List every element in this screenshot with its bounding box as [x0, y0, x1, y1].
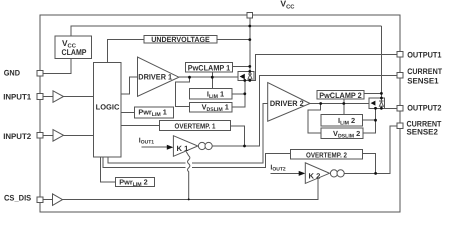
buffer INPUT1 — [53, 91, 64, 103]
arrowhead IOUT1 — [167, 145, 174, 150]
svg-text:PwCLAMP 2: PwCLAMP 2 — [319, 91, 362, 100]
wire undervoltage right to Vcc rail — [217, 39, 250, 41]
box LOGIC — [94, 63, 121, 157]
amplifier K1 — [173, 136, 197, 157]
box UNDERVOLTAGE — [144, 36, 217, 44]
wire PwCLAMP2 tap through to ILIM2 — [343, 99, 345, 115]
wire OUTPUT2 net — [385, 107, 398, 109]
wire GND to Vcc clamp — [43, 58, 71, 73]
svg-text:K 2: K 2 — [309, 171, 321, 180]
svg-text:DRIVER 1: DRIVER 1 — [138, 72, 172, 81]
svg-text:PwCLAMP 1: PwCLAMP 1 — [188, 63, 231, 72]
wire LOGIC to OVERTEMP2 — [103, 157, 185, 168]
op-amp DRIVER1 — [138, 57, 179, 96]
wire OVERTEMP2 right tap — [363, 153, 376, 173]
box PwCLAMP1 — [185, 63, 232, 72]
svg-text:SENSE1: SENSE1 — [407, 76, 439, 85]
svg-text:LOGIC: LOGIC — [96, 103, 120, 112]
pin CURRENT SENSE2 — [397, 123, 403, 129]
pin INPUT1 — [37, 94, 43, 100]
pin GND — [37, 71, 43, 77]
svg-text:CURRENT: CURRENT — [407, 67, 442, 76]
wire K1 output to CURRENT SENSE1 — [212, 75, 397, 146]
svg-text:UNDERVOLTAGE: UNDERVOLTAGE — [151, 35, 210, 44]
svg-text:INPUT1: INPUT1 — [3, 92, 32, 101]
svg-text:DRIVER 2: DRIVER 2 — [270, 99, 304, 108]
box Vcc CLAMP — [55, 36, 91, 58]
wire ILIM2 right stub — [363, 119, 376, 121]
transistor MOSFET1 frame — [238, 71, 254, 80]
wire MOSFET2 source sense tap — [363, 108, 376, 133]
box VDSLIM2 — [321, 128, 363, 139]
wire CS_DIS to buffer — [43, 199, 53, 201]
pin Vcc — [247, 12, 253, 18]
transistor MOSFET1 arrow — [240, 74, 245, 80]
wire OVERTEMP1 right tap — [231, 126, 245, 146]
wire IOUT2 arrow line — [270, 172, 299, 174]
svg-text:CS_DIS: CS_DIS — [4, 194, 32, 203]
wire LOGIC to DRIVER2 — [108, 157, 186, 163]
diode body D2 — [380, 98, 382, 108]
transistor MOSFET2 arrow — [371, 101, 376, 106]
wire LOGIC to PwrLIM1 — [121, 112, 134, 114]
wire INPUT1 to buffer — [43, 96, 53, 98]
box ILIM2 — [321, 115, 363, 126]
wire VDSLIM2 left loop — [308, 104, 321, 134]
wire MOSFET1 source sense tap — [232, 80, 245, 107]
wire ILIM1 right stub — [232, 93, 245, 95]
svg-text:CLAMP: CLAMP — [62, 47, 87, 57]
transistor MOSFET2 frame — [369, 98, 385, 108]
wire buffer2 to LOGIC — [64, 134, 94, 136]
wire buffer1 to LOGIC — [64, 96, 94, 98]
wire PwCLAMP2 to drain rail — [364, 92, 381, 94]
pin CURRENT SENSE1 — [397, 73, 403, 79]
box OVERTEMP1 — [159, 121, 230, 131]
current mirror circles K2 — [330, 170, 337, 177]
wire LOGIC to OVERTEMP1 — [121, 125, 159, 127]
pin OUTPUT2 — [397, 106, 403, 112]
box VDSLIM1 — [190, 102, 232, 112]
box OVERTEMP2 — [291, 150, 363, 160]
diode body D1 — [249, 71, 251, 80]
pin OUTPUT1 — [397, 52, 403, 58]
box PwrLIM2 — [115, 177, 154, 186]
wire OUTPUT1 net — [254, 54, 397, 80]
wire DRIVER2 output to MOSFET2 gate — [310, 103, 369, 105]
pin CS_DIS — [37, 197, 43, 203]
pin INPUT2 — [37, 133, 43, 139]
wire undervoltage left to LOGIC — [108, 40, 145, 63]
wire K1 squiggle to CS_DIS bus — [186, 152, 190, 200]
box PwCLAMP2 — [317, 91, 364, 100]
svg-text:OUTPUT2: OUTPUT2 — [407, 104, 442, 113]
junction dots — [248, 25, 251, 28]
wire IOUT1 arrow line — [142, 146, 169, 148]
wire LOGIC to DRIVER1 jog — [121, 77, 137, 94]
arrowhead IOUT2 — [299, 171, 306, 176]
wire VDSLIM1 left loop — [176, 77, 190, 106]
IC border — [40, 15, 400, 212]
wire Vcc top bus — [71, 26, 381, 36]
wire LOGIC to PwrLIM2 — [100, 157, 115, 182]
box ILIM1 — [190, 89, 232, 99]
svg-text:OVERTEMP. 2: OVERTEMP. 2 — [306, 150, 347, 159]
current mirror circles K1 — [198, 142, 205, 149]
buffer INPUT2 — [53, 130, 64, 142]
op-amp DRIVER2 — [268, 83, 310, 122]
buffer CS_DIS — [53, 194, 63, 206]
wire PwCLAMP1 tap through to ILIM1 — [211, 72, 213, 89]
wire INPUT2 to buffer — [43, 134, 53, 136]
wire CS_DIS bus — [63, 178, 318, 199]
svg-text:INPUT2: INPUT2 — [3, 132, 32, 141]
box PwrLIM1 — [134, 107, 173, 118]
wire Vcc rail to MOSFET2 drain — [380, 26, 382, 98]
svg-text:GND: GND — [4, 69, 21, 78]
wire DRIVER1 output to MOSFET1 gate — [179, 76, 238, 78]
svg-text:OUTPUT1: OUTPUT1 — [407, 50, 442, 59]
svg-text:SENSE2: SENSE2 — [407, 128, 439, 137]
wire Vcc pin vertical rail — [249, 18, 251, 72]
amplifier K2 — [305, 163, 329, 184]
svg-text:OVERTEMP. 1: OVERTEMP. 1 — [175, 121, 216, 130]
wire K2 output to CURRENT SENSE2 — [344, 126, 397, 174]
wire PwCLAMP1 to Vcc rail — [233, 65, 250, 67]
svg-text:K 1: K 1 — [177, 144, 190, 153]
